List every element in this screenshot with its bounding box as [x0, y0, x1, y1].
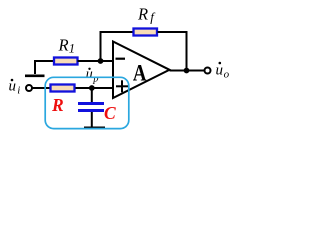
wire feedback riser from node up and right to Rf — [101, 32, 134, 61]
label u_i — [9, 78, 21, 96]
wire input to R — [32, 87, 51, 89]
wire R right to op-amp non-inverting input — [76, 87, 114, 89]
node at inverting input (junction with feedback) — [98, 58, 104, 64]
label C — [104, 103, 116, 123]
RC network box — [45, 77, 129, 128]
op-amp plus sign — [116, 80, 128, 92]
resistor R1 — [54, 58, 78, 65]
label R — [51, 95, 64, 115]
wire Rf right down to output node — [158, 32, 187, 71]
ground under capacitor — [84, 127, 105, 130]
wire capacitor down to ground bar — [91, 112, 93, 127]
svg-text:R: R — [137, 4, 148, 23]
label A (op-amp gain) — [133, 60, 147, 87]
label u_o — [216, 62, 230, 81]
op-amp A triangle — [113, 42, 170, 99]
wire from ground to R1 left — [35, 61, 53, 74]
terminal input circle — [26, 85, 32, 91]
ground — [25, 75, 45, 78]
svg-text:o: o — [224, 69, 230, 81]
node u_p junction — [89, 85, 95, 91]
svg-text:u: u — [216, 63, 224, 79]
svg-text:R: R — [51, 95, 64, 115]
svg-text:1: 1 — [69, 42, 75, 56]
wire R1 right to op-amp inverting input — [78, 60, 114, 62]
wire op-amp output — [170, 70, 205, 72]
label Rf — [137, 4, 156, 24]
svg-text:C: C — [104, 103, 116, 123]
node at output junction — [184, 68, 190, 74]
terminal output circle — [205, 68, 211, 74]
wire node down to capacitor — [91, 88, 93, 103]
resistor R — [51, 85, 75, 92]
svg-text:p: p — [92, 74, 98, 85]
svg-text:A: A — [133, 60, 147, 87]
svg-text:i: i — [17, 84, 20, 96]
svg-text:R: R — [58, 35, 69, 54]
capacitor C — [78, 104, 104, 111]
label R1 — [58, 35, 76, 55]
svg-text:f: f — [150, 10, 156, 25]
op-amp minus sign — [116, 58, 126, 60]
resistor Rf — [134, 29, 158, 36]
label u_p — [86, 67, 99, 84]
